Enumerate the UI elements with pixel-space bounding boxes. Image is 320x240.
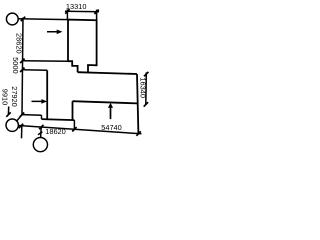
building left block edge bbox=[46, 70, 48, 119]
wire leader balloon2 bbox=[40, 127, 43, 138]
wire leader balloon1 bbox=[17, 115, 22, 121]
wire ext line 13310 right bbox=[96, 10, 98, 20]
svg-text:18620: 18620 bbox=[45, 127, 66, 136]
wire ext line 13310 left bbox=[66, 9, 68, 19]
building staircase left junction bbox=[68, 61, 78, 72]
wire dim line 9910 bbox=[7, 107, 9, 115]
node tick left chain y114.7 bbox=[20, 113, 24, 117]
building right edge bbox=[137, 74, 138, 134]
node tick bottom x138.2 bbox=[136, 131, 140, 135]
wire bottom dim line sloped bbox=[19, 126, 142, 134]
wire chained dim line left bbox=[22, 18, 23, 115]
node tick left chain y69.8 bbox=[20, 68, 24, 72]
wire ext 18620 right stub bbox=[73, 120, 75, 129]
node tick bottom x74.4 bbox=[72, 127, 76, 131]
wire dim line 16340 bbox=[145, 72, 148, 104]
wire dim line 13310 bbox=[65, 10, 99, 13]
node tick 16340 bottom bbox=[144, 102, 148, 106]
arrow marker upper pointing right at tower wall bbox=[47, 30, 63, 35]
svg-text:28620: 28620 bbox=[15, 33, 24, 54]
node tick 16340 top bbox=[144, 72, 148, 76]
node balloon bottom 2 bbox=[33, 138, 47, 152]
node tick bottom x21 bbox=[19, 124, 23, 128]
wire extra vertical x21 below dim line bbox=[21, 126, 23, 138]
svg-text:9910: 9910 bbox=[0, 89, 9, 105]
building lower wing top edge bbox=[73, 101, 138, 103]
node balloon bottom-left 1 bbox=[6, 119, 18, 131]
svg-text:54740: 54740 bbox=[101, 123, 122, 132]
node tick left chain y60.8 bbox=[20, 59, 24, 63]
wire grid line from balloon to tower bbox=[18, 18, 68, 21]
svg-text:27920: 27920 bbox=[10, 86, 19, 107]
node A balloon top-left bbox=[6, 13, 18, 25]
wire stub ext x41.5 bbox=[41, 115, 43, 119]
node tick 13310 right bbox=[94, 10, 98, 14]
svg-text:5000: 5000 bbox=[11, 57, 20, 73]
building right arm top edge bbox=[78, 72, 137, 74]
building step bottom edge bbox=[42, 119, 75, 120]
svg-text:13310: 13310 bbox=[66, 2, 87, 11]
wire ext line y115 bottom-left bbox=[22, 114, 41, 117]
node tick leader balloon2 bbox=[38, 132, 42, 135]
node tick 13310 left bbox=[65, 9, 69, 13]
node tick bottom x41.3 bbox=[39, 125, 43, 129]
svg-text:16340: 16340 bbox=[139, 77, 148, 98]
node tick left chain top bbox=[21, 17, 25, 21]
arrow marker lower-left pointing right at block wall bbox=[32, 99, 48, 104]
building wing connector vertical bbox=[72, 101, 74, 120]
building tower outline bbox=[68, 20, 97, 73]
wire left block top edge bbox=[22, 69, 47, 72]
arrow marker bottom pointing up at wing wall bbox=[108, 103, 113, 119]
node tick 9910 bottom bbox=[6, 112, 10, 116]
wire left ledge ext line bbox=[22, 60, 68, 63]
